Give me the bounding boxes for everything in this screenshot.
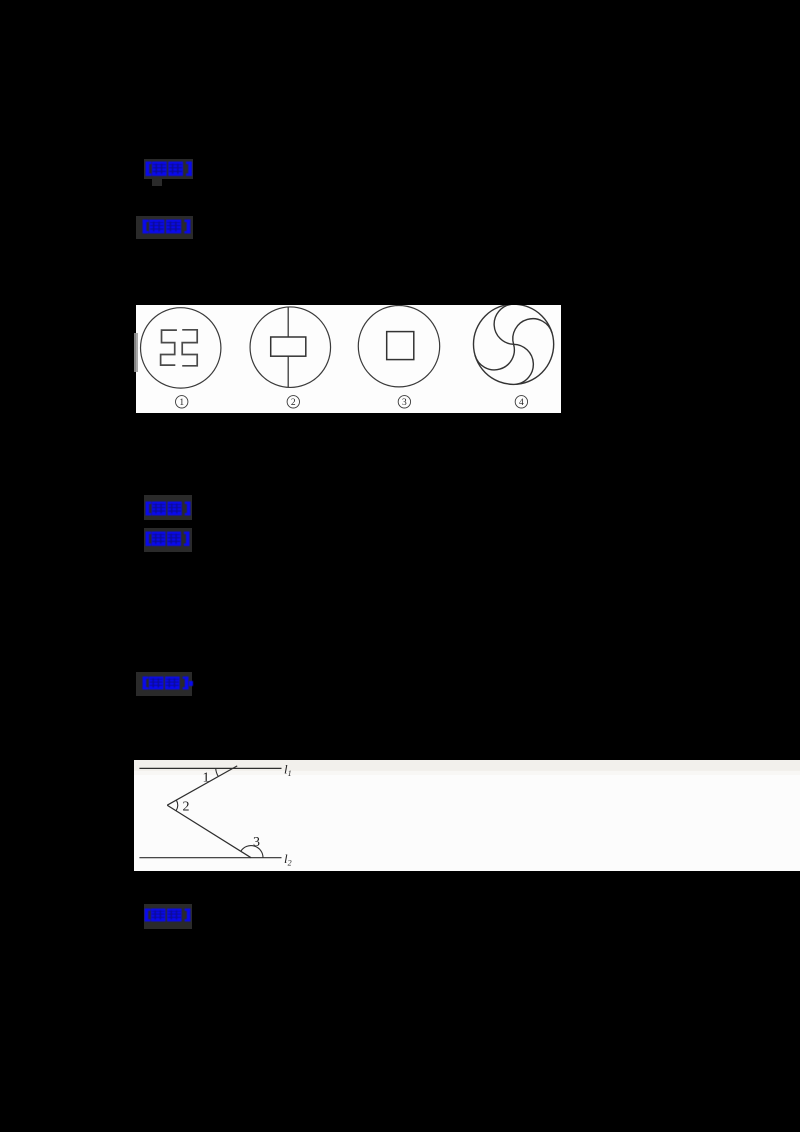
- angle 3 arc: [241, 845, 263, 857]
- square of figure 3: [386, 331, 413, 359]
- svg-text:3: 3: [402, 398, 407, 408]
- blue label 4: [145, 531, 190, 547]
- circled number 3 badge: [398, 395, 410, 408]
- circled number 2 badge: [287, 395, 299, 408]
- circled number 4 badge: [515, 395, 527, 408]
- meander glyph right in figure 1: [182, 330, 197, 366]
- vertical diameter line of figure 2: [287, 307, 289, 387]
- angle 2 arc: [176, 800, 177, 810]
- svg-text:1: 1: [203, 770, 210, 785]
- svg-text:2: 2: [183, 799, 190, 814]
- rectangle of figure 2: [270, 337, 305, 356]
- transversal segment lower (vertex to P2): [167, 805, 251, 857]
- svg-text:2: 2: [291, 398, 296, 408]
- blue label 1: [145, 161, 193, 177]
- blue label 5: [142, 676, 189, 690]
- highlight box of label 2: [136, 216, 193, 240]
- svg-text:1: 1: [179, 398, 184, 408]
- svg-text:3: 3: [253, 835, 260, 850]
- highlight box of label 3: [144, 495, 192, 520]
- pinwheel arc bottom-to-center of figure 4: [513, 344, 533, 384]
- blue label 3: [145, 501, 191, 516]
- svg-text:l2: l2: [284, 851, 292, 867]
- gray scan streak at left edge of figure box 1: [134, 333, 138, 372]
- line l1: [139, 767, 281, 769]
- highlight tail below label 1: [152, 179, 162, 186]
- pinwheel arc center-to-left of figure 4: [475, 344, 514, 370]
- blue bracket nub right of label 5: [189, 681, 193, 687]
- blue label 2: [142, 219, 191, 234]
- circle of figure 2: [250, 307, 330, 387]
- circled number 1 badge: [175, 395, 187, 408]
- circle of figure 1: [140, 307, 220, 387]
- meander glyph left in figure 1: [160, 330, 176, 365]
- blue label 6: [144, 908, 191, 922]
- circle of figure 4: [473, 304, 553, 384]
- pinwheel arc top-to-center of figure 4: [494, 304, 513, 344]
- highlight box of label 6: [144, 904, 193, 929]
- white figure box 1: [136, 305, 562, 414]
- faint gray band at top of figure box 2: [134, 760, 800, 771]
- highlight box of label 1: [144, 159, 193, 180]
- white figure box 2: [134, 760, 800, 872]
- line l2: [139, 856, 281, 858]
- angle 1 arc: [216, 768, 219, 776]
- transversal segment upper (P1 to vertex): [167, 766, 237, 805]
- highlight box of label 5: [136, 672, 193, 697]
- circle of figure 3: [358, 305, 439, 386]
- pinwheel arc center-to-right of figure 4: [512, 318, 551, 344]
- svg-text:4: 4: [519, 398, 524, 408]
- highlight box of label 4: [144, 528, 192, 553]
